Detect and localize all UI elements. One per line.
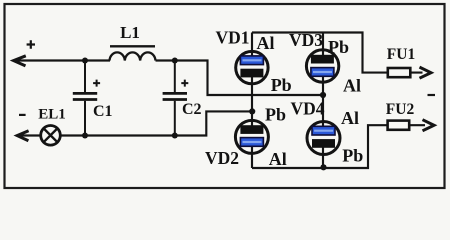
svg-text:FU1: FU1 xyxy=(387,46,415,63)
svg-text:Pb: Pb xyxy=(271,75,292,95)
svg-text:Al: Al xyxy=(269,149,287,169)
svg-text:Al: Al xyxy=(257,33,275,53)
svg-text:C1: C1 xyxy=(93,103,113,120)
C2 plus sign xyxy=(181,80,188,87)
node VD1-VD2 midpoint xyxy=(249,108,255,114)
svg-text:Al: Al xyxy=(343,76,361,96)
wire top AC rail to FU1 xyxy=(252,33,423,73)
svg-text:Pb: Pb xyxy=(328,37,349,57)
wire VD1 column xyxy=(251,33,253,112)
arrow left top output xyxy=(14,56,26,66)
svg-text:C2: C2 xyxy=(182,101,202,118)
rectifier cell VD1 xyxy=(236,51,268,83)
node C2 top xyxy=(172,58,178,64)
wire bottom rail xyxy=(18,111,253,135)
capacitor C2 xyxy=(163,61,187,136)
node C2 bottom xyxy=(172,133,178,139)
arrow left bottom output xyxy=(17,131,28,141)
node VD4 bottom xyxy=(320,164,326,170)
arrow right FU1 output xyxy=(420,67,432,78)
wire VD3-VD4 column xyxy=(322,33,324,168)
C1 plus sign xyxy=(93,80,100,87)
fuse FU2 xyxy=(388,121,410,130)
plus sign at top-left output xyxy=(27,40,35,48)
node VD3-VD4 midpoint xyxy=(320,92,326,98)
lamp EL1 xyxy=(41,126,61,146)
rectifier cell VD2 xyxy=(235,120,268,153)
node C1 top xyxy=(82,58,88,64)
svg-text:FU2: FU2 xyxy=(386,101,415,118)
svg-text:Al: Al xyxy=(341,108,359,128)
svg-text:Pb: Pb xyxy=(265,105,286,125)
svg-text:VD3: VD3 xyxy=(289,30,323,50)
svg-text:VD4: VD4 xyxy=(290,99,324,119)
minus sign at right AC side xyxy=(428,94,436,96)
capacitor C1 xyxy=(73,61,97,136)
L1 core bar xyxy=(110,45,155,47)
svg-text:L1: L1 xyxy=(120,23,140,42)
wire top rail left xyxy=(15,59,111,61)
svg-text:EL1: EL1 xyxy=(38,106,66,122)
svg-text:Pb: Pb xyxy=(342,145,363,165)
wire top rail right of L1 to bend into bridge xyxy=(156,61,324,96)
svg-text:VD1: VD1 xyxy=(215,27,249,47)
border frame xyxy=(5,4,445,188)
wire VD2 column xyxy=(251,111,253,168)
minus sign at bottom-left output xyxy=(19,114,26,116)
arrow right FU2 output xyxy=(423,120,435,131)
inductor L1 xyxy=(110,52,156,60)
wire bottom AC rail to FU2 xyxy=(252,125,425,168)
fuse FU1 xyxy=(388,68,411,77)
node C1 bottom xyxy=(82,133,88,139)
svg-text:VD2: VD2 xyxy=(205,148,239,168)
rectifier cell VD3 xyxy=(306,50,338,82)
rectifier cell VD4 xyxy=(307,122,340,155)
